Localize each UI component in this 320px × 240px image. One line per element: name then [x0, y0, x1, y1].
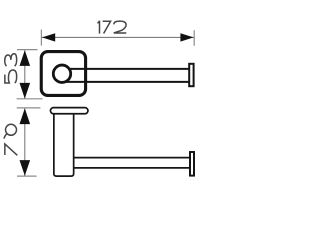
dim 76: down arrowhead [20, 160, 31, 176]
dim 76: top tick line [17, 107, 41, 109]
side view: arm bottom line [73, 167, 190, 169]
top view: roller arm bottom line [62, 81, 190, 83]
side view: arm top line [73, 157, 190, 159]
dim 172: right arrowhead [180, 33, 193, 41]
dim 172: left arrowhead [42, 33, 55, 41]
side view: arm end cap [190, 152, 194, 176]
dim 76: bottom tick line [17, 175, 37, 177]
dim 172: label "172" digit 1 [98, 21, 100, 34]
dim 172: label "172" digit 7 [103, 21, 111, 33]
top view: square wall plate [41, 52, 85, 96]
dim 53: down arrowhead [20, 83, 31, 99]
dim 53: dimension line [24, 50, 26, 98]
dim 172: left extension line [40, 30, 42, 46]
dim 53: label digit 5 (rotated) [5, 70, 17, 83]
dim 53: top tick line [17, 49, 38, 51]
dim 172: right extension line [193, 30, 195, 46]
dim 76: dimension line [24, 109, 26, 176]
dim 172: dimension line [42, 36, 194, 38]
dim 76: up arrowhead [20, 108, 31, 124]
side view: wall plate bar [50, 108, 87, 114]
top view: arm end cap [189, 64, 193, 86]
dim 76: label digit 6 (rotated) [4, 124, 16, 138]
dim 53: up arrowhead [20, 50, 31, 66]
dim 53: bottom tick line [17, 98, 43, 100]
dim 76: label digit 7 (rotated) [5, 144, 17, 155]
side view: vertical post body [54, 114, 74, 176]
dim 172: label "172" digit 2 [114, 21, 127, 33]
top view: roller arm top line [62, 68, 190, 70]
top view: post circle [53, 65, 70, 82]
dim 53: label digit 3 (rotated) [5, 54, 17, 66]
